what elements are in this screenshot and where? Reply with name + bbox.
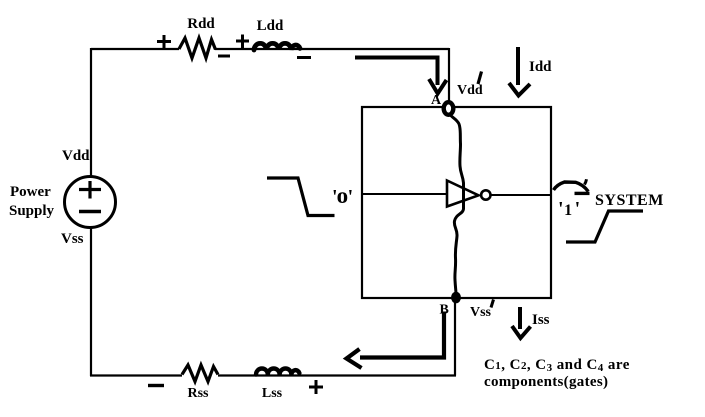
input waveform falling edge — [267, 178, 335, 216]
wire bottom from node B to supply — [90, 298, 456, 376]
svg-text:components(gates): components(gates) — [484, 374, 608, 390]
current arrow out of node B — [347, 312, 445, 369]
svg-text:Idd: Idd — [529, 59, 552, 75]
svg-text:Supply: Supply — [9, 203, 55, 219]
wire left vertical — [90, 48, 92, 376]
plus inside supply — [79, 181, 101, 199]
minus inside supply — [79, 210, 101, 213]
svg-text:Vdd: Vdd — [62, 148, 90, 164]
minus mark near Rss — [148, 384, 164, 387]
svg-text:Vss: Vss — [470, 305, 492, 320]
svg-text:C1, C2, C3 and C4 are: C1, C2, C3 and C4 are — [484, 357, 630, 374]
wire top from supply to node A — [91, 48, 449, 102]
svg-text:'1': '1' — [558, 198, 580, 220]
curved arrow to SYSTEM — [554, 179, 590, 193]
power supply source — [65, 177, 116, 228]
wire inverter input — [362, 193, 446, 195]
plus mark near Lss — [309, 380, 323, 394]
svg-text:Rdd: Rdd — [187, 16, 215, 32]
arrow Iss — [512, 307, 531, 338]
node B — [451, 292, 461, 304]
wire wavy from A to inverter and to node B — [449, 113, 464, 293]
svg-text:Iss: Iss — [532, 312, 550, 328]
svg-text:SYSTEM: SYSTEM — [595, 192, 664, 209]
node A — [444, 102, 454, 115]
svg-text:Lss: Lss — [262, 386, 283, 401]
resistor Rss — [182, 365, 218, 382]
plus mark before Rdd — [157, 35, 171, 49]
plus mark before Ldd — [236, 35, 249, 49]
svg-text:Power: Power — [10, 184, 51, 200]
output waveform rising edge — [566, 211, 643, 242]
svg-text:Ldd: Ldd — [257, 18, 284, 34]
inverter U1 — [447, 181, 490, 207]
svg-text:A: A — [431, 93, 442, 108]
current arrow into node A — [355, 58, 447, 94]
resistor Rdd — [179, 38, 216, 58]
wire inverter output — [491, 194, 552, 196]
minus mark after Rdd — [218, 55, 230, 58]
inductor Ldd — [254, 43, 300, 50]
inductor Lss — [256, 369, 299, 375]
arrow Idd — [509, 47, 530, 96]
svg-text:Vss: Vss — [61, 231, 84, 247]
svg-text:Rss: Rss — [187, 386, 209, 401]
system box — [362, 107, 551, 298]
svg-text:Vdd: Vdd — [457, 83, 483, 98]
svg-text:'o': 'o' — [332, 183, 353, 208]
minus mark after Ldd — [297, 56, 311, 59]
